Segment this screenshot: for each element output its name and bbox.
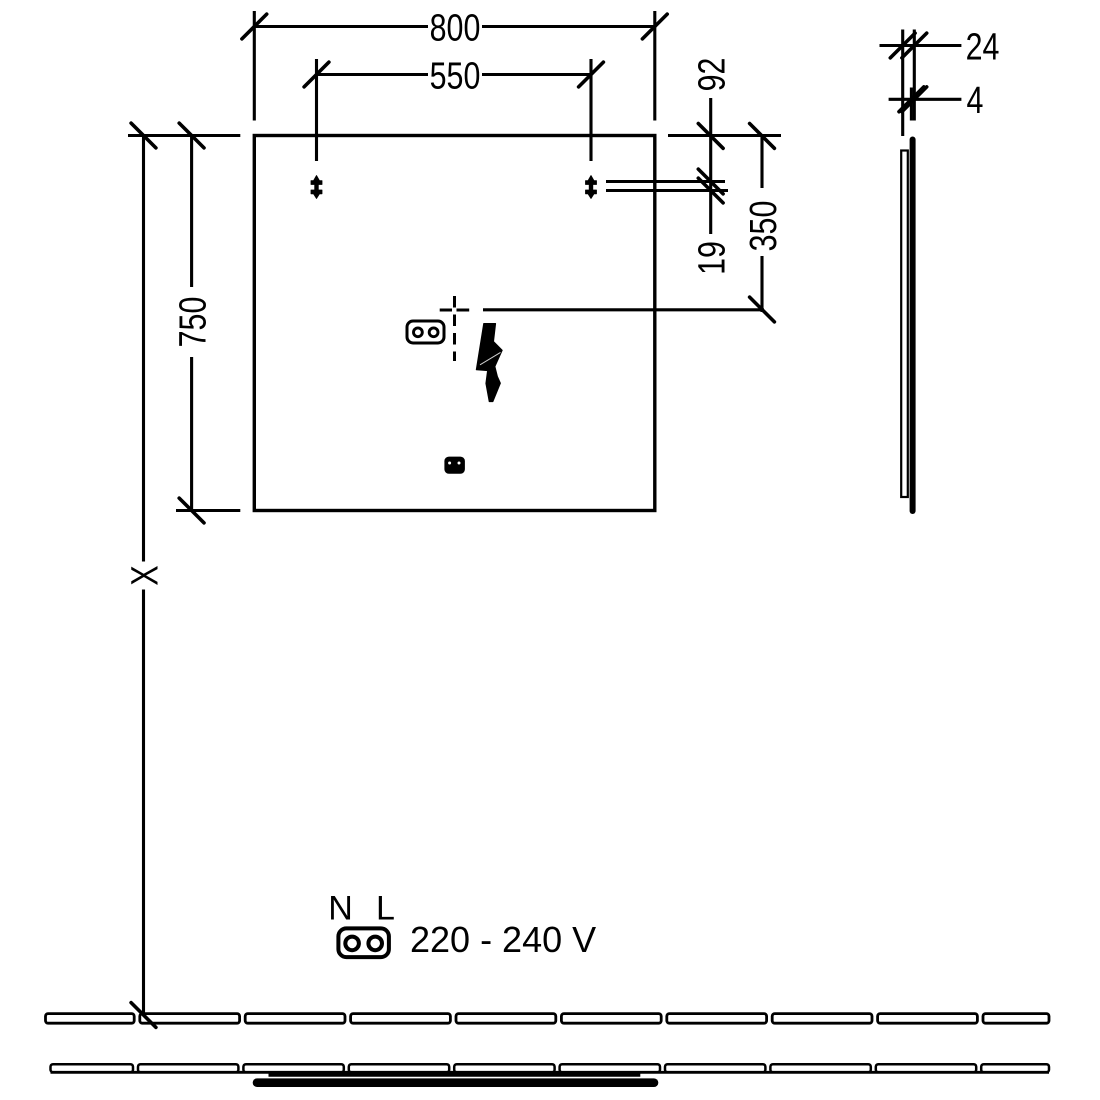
dim 4 tick left: [899, 87, 924, 112]
dim 92 tick top: [698, 124, 723, 149]
dim 19 tick lower: [698, 178, 723, 203]
socket symbol at connection point: [407, 321, 444, 343]
dim 800 text: [430, 7, 481, 49]
dim 800 extension line right: [653, 11, 656, 121]
dim 92 text: [691, 58, 733, 92]
dim 750 line lower: [190, 357, 193, 511]
dim 4 text: [967, 80, 984, 122]
side view 24 extension line left: [901, 30, 904, 137]
svg-text:4: 4: [967, 80, 984, 122]
svg-text:L: L: [376, 890, 395, 928]
dim X line lower: [142, 590, 145, 1014]
svg-text:550: 550: [430, 55, 481, 97]
svg-text:N: N: [328, 890, 353, 928]
dim 350 tick top: [750, 124, 775, 149]
svg-text:800: 800: [430, 7, 481, 49]
dim 350 line upper: [760, 136, 763, 188]
svg-text:220 - 240 V: 220 - 240 V: [410, 919, 596, 960]
dim 800 tick right: [642, 14, 667, 39]
svg-text:19: 19: [691, 241, 733, 275]
dim 750 line upper: [190, 136, 193, 288]
dim 800 extension line left: [253, 11, 256, 121]
dim 24 tick right: [902, 33, 927, 58]
svg-text:750: 750: [172, 297, 214, 348]
side view glass pane: [901, 151, 908, 498]
dim 4 tick right: [902, 87, 927, 112]
mounting point right: [586, 176, 597, 199]
dim 750 text: [172, 297, 214, 348]
dim 350 text: [743, 201, 785, 252]
mounting point left: [311, 176, 322, 199]
extension line from mirror top right corner: [668, 134, 781, 137]
dim 24 line: [880, 44, 962, 47]
svg-text:X: X: [124, 565, 166, 585]
dim 550 extension line left: [315, 59, 318, 161]
side view 4 extension line: [910, 88, 913, 121]
dim X text: [124, 565, 166, 585]
dim 350 tick bottom: [750, 297, 775, 322]
dim X tick bottom: [131, 1003, 156, 1028]
dim 550 text: [430, 55, 481, 97]
mirror plan view glass line: [269, 1073, 641, 1076]
side view mirror body: [910, 140, 916, 512]
svg-text:24: 24: [966, 26, 1000, 68]
dim X line upper: [142, 136, 145, 562]
svg-text:92: 92: [691, 58, 733, 92]
dim 4 line: [889, 98, 962, 101]
dim 550 tick left: [304, 62, 329, 87]
dim 800 line: [254, 25, 655, 28]
floor tile row 2 baseline: [51, 1071, 1050, 1074]
dim 24 text: [966, 26, 1000, 68]
lightning bolt arrow: [476, 324, 502, 402]
hanger rail lower line: [606, 189, 728, 192]
dim X tick top: [131, 123, 156, 148]
dim 550 tick right: [579, 62, 604, 87]
floor tile row 1: [46, 1014, 1050, 1024]
top left extension line: [128, 134, 240, 137]
connection point dashed cross vertical: [453, 296, 456, 361]
dim 19 tick upper: [698, 169, 723, 194]
junction box symbol: [444, 457, 465, 474]
mirror front view outline: [254, 136, 655, 511]
dim 19 text: [691, 241, 733, 275]
bottom left extension line: [176, 509, 240, 512]
connection point dashed cross horizontal: [440, 309, 470, 312]
dim 550 line: [317, 73, 592, 76]
reference line to connection point: [483, 308, 764, 311]
dim 92/19 line: [709, 98, 712, 234]
socket symbol with N L labels: [328, 890, 395, 958]
svg-text:350: 350: [743, 201, 785, 252]
side view 24 extension line right: [913, 30, 916, 121]
dim 800 tick left: [242, 14, 267, 39]
lightning bolt inner slit: [480, 352, 501, 364]
mirror plan view body: [257, 1078, 654, 1087]
hanger rail upper line: [606, 180, 725, 183]
dim 350 line lower: [760, 256, 763, 312]
floor tile row 2: [51, 1064, 1050, 1072]
dim 750 tick top: [179, 123, 204, 148]
dim 750 tick bottom: [179, 498, 204, 523]
dim 24 tick left: [890, 33, 915, 58]
dim 550 extension line right: [589, 59, 592, 161]
